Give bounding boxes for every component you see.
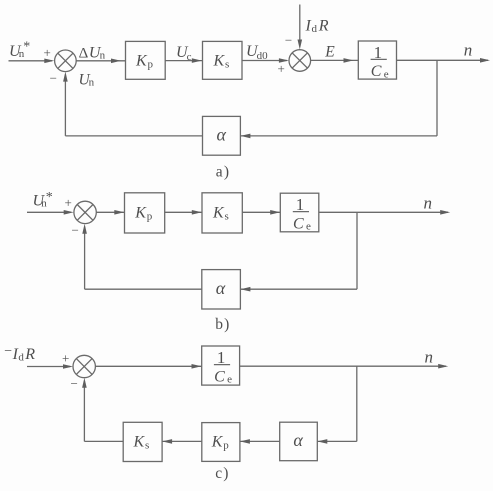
svg-text:e: e	[227, 374, 232, 386]
block 1/Ce (b)	[280, 193, 319, 232]
wire input Un* to summer (a)	[9, 60, 53, 62]
arrow into summer S2 (a)	[279, 58, 289, 63]
block Ks (a)	[203, 41, 243, 79]
block Kp (a)	[126, 41, 166, 79]
wire summer S1 to Kp (a)	[76, 60, 125, 62]
svg-text:*: *	[46, 190, 53, 205]
svg-text:α: α	[216, 278, 226, 298]
arrow into Kp (c)	[240, 439, 250, 444]
arrow into Ce (c)	[192, 364, 202, 369]
wire alpha to left corner (b)	[85, 288, 202, 290]
wire summer to Kp (b)	[96, 211, 124, 213]
wire Ks to Ce (b)	[242, 211, 280, 213]
svg-text:c): c)	[215, 465, 229, 482]
block alpha (a)	[203, 116, 241, 155]
svg-text:−: −	[71, 376, 78, 391]
arrow into Kp (a)	[111, 59, 121, 64]
wire Kp to Ks (b)	[165, 211, 202, 213]
svg-text:d: d	[312, 23, 318, 35]
node -IdR input label (c)	[4, 344, 35, 364]
summing junction (c)	[73, 355, 95, 377]
wire Kp to Ks (a)	[165, 60, 202, 62]
node Uc label (a)	[176, 44, 192, 63]
svg-text:−: −	[72, 222, 79, 237]
wire feedback horizontal right (a)	[240, 135, 437, 137]
svg-text:−: −	[50, 71, 57, 86]
svg-text:−: −	[4, 344, 12, 359]
arrow into Kp (b)	[114, 210, 124, 215]
wire Kp to Ks (c)	[162, 440, 202, 442]
wire input -IdR to summer (c)	[27, 366, 70, 368]
arrow feedback into summer (c)	[82, 378, 87, 388]
block 1/Ce (c)	[202, 346, 240, 386]
wire Ks to summer S2 (a)	[242, 60, 287, 62]
wire alpha to left corner (a)	[65, 135, 202, 137]
svg-text:K: K	[211, 433, 224, 450]
node Un* input label (a)	[9, 40, 30, 61]
svg-text:I: I	[305, 17, 312, 34]
block Ks (c)	[123, 422, 162, 461]
svg-text:s: s	[145, 440, 149, 452]
svg-text:α: α	[293, 430, 303, 450]
wire feedback tap down (b)	[356, 212, 358, 289]
node dUn label (a)	[79, 44, 106, 61]
svg-text:R: R	[24, 346, 35, 363]
svg-text:c: c	[187, 51, 192, 63]
svg-text:n: n	[464, 41, 473, 60]
wire alpha to Kp (c)	[240, 440, 280, 442]
svg-text:b): b)	[215, 316, 230, 333]
svg-text:α: α	[217, 125, 227, 145]
svg-text:K: K	[213, 52, 226, 69]
svg-text:+: +	[65, 195, 72, 210]
arrow output n (a)	[480, 58, 490, 63]
arrow output n (b)	[440, 210, 450, 215]
arrow into Ks (a)	[192, 58, 202, 63]
svg-text:d0: d0	[257, 50, 269, 62]
svg-text:C: C	[293, 215, 304, 232]
arrow into Ce block (a)	[344, 58, 354, 63]
block Kp (c)	[202, 423, 240, 462]
arrow into alpha (c)	[317, 439, 327, 444]
wire Ce to output n (b)	[319, 211, 448, 213]
wire feedback vertical up to summer (c)	[83, 381, 85, 442]
wire feedback vertical up to summer S1 (a)	[64, 75, 66, 136]
svg-text:C: C	[371, 63, 382, 80]
summing junction S1 (a)	[55, 50, 77, 72]
arrow into summer (b)	[64, 210, 74, 215]
svg-text:s: s	[225, 59, 229, 71]
arrow feedback into summer S1 (a)	[63, 72, 68, 82]
wire summer to Ce (c)	[95, 365, 201, 367]
svg-text:E: E	[324, 44, 335, 61]
svg-text:n: n	[89, 77, 95, 89]
arrow into alpha (b)	[240, 287, 250, 292]
wire summer S2 to Ce block (a)	[311, 59, 359, 61]
svg-text:p: p	[147, 211, 153, 223]
svg-text:+: +	[44, 45, 51, 60]
node Ud0 label (a)	[246, 43, 268, 62]
svg-text:e: e	[384, 68, 389, 80]
arrow IdR into summer S2 (a)	[298, 40, 303, 50]
arrow output n (c)	[438, 364, 448, 369]
summing junction S2 (a)	[289, 50, 311, 72]
svg-text:a): a)	[216, 163, 230, 180]
block Ks (b)	[202, 193, 242, 233]
svg-text:+: +	[278, 61, 285, 76]
svg-text:p: p	[148, 59, 154, 71]
svg-text:d: d	[18, 352, 24, 364]
node IdR label (a)	[305, 17, 329, 35]
svg-text:K: K	[134, 204, 147, 221]
wire feedback tap down (a)	[436, 60, 438, 136]
svg-text:s: s	[225, 210, 229, 222]
block alpha (c)	[280, 422, 318, 461]
svg-text:R: R	[318, 18, 329, 35]
wire IdR disturbance input (a)	[299, 5, 301, 47]
wire feedback vertical up to summer (b)	[84, 227, 86, 290]
arrow feedback into summer (b)	[82, 224, 87, 234]
arrow into summer (c)	[63, 364, 73, 369]
arrow into Ks (c)	[162, 439, 172, 444]
svg-text:K: K	[212, 204, 225, 221]
svg-text:+: +	[62, 351, 69, 366]
wire feedback horizontal to alpha (c)	[317, 440, 357, 442]
wire feedback horizontal (b)	[240, 288, 357, 290]
arrow into alpha block (a)	[240, 134, 250, 139]
arrow into summer S1 (a)	[44, 59, 54, 64]
svg-text:Δ: Δ	[79, 45, 89, 61]
wire feedback tap down (c)	[356, 366, 358, 441]
block Kp (b)	[125, 193, 165, 233]
wire Ce to output n (c)	[240, 365, 446, 367]
svg-text:e: e	[306, 221, 311, 233]
node Un* input label (b)	[33, 190, 53, 210]
wire Ce to output n (a)	[397, 59, 489, 61]
svg-text:K: K	[135, 52, 148, 69]
block 1/Ce (a)	[358, 41, 396, 80]
summing junction (b)	[74, 201, 96, 223]
svg-text:n: n	[424, 193, 433, 212]
svg-text:*: *	[23, 40, 30, 55]
svg-text:−: −	[285, 33, 292, 48]
svg-text:p: p	[223, 440, 229, 452]
svg-text:n: n	[100, 49, 106, 61]
wire input Un* to summer (b)	[27, 211, 71, 213]
node Un feedback label (a)	[79, 71, 95, 88]
arrow into Ks (b)	[192, 210, 202, 215]
wire Ks to left corner (c)	[84, 440, 123, 442]
arrow into Ce (b)	[270, 210, 280, 215]
block alpha (b)	[202, 270, 241, 309]
svg-text:n: n	[425, 347, 434, 366]
svg-text:C: C	[214, 368, 225, 385]
svg-text:K: K	[133, 433, 146, 450]
